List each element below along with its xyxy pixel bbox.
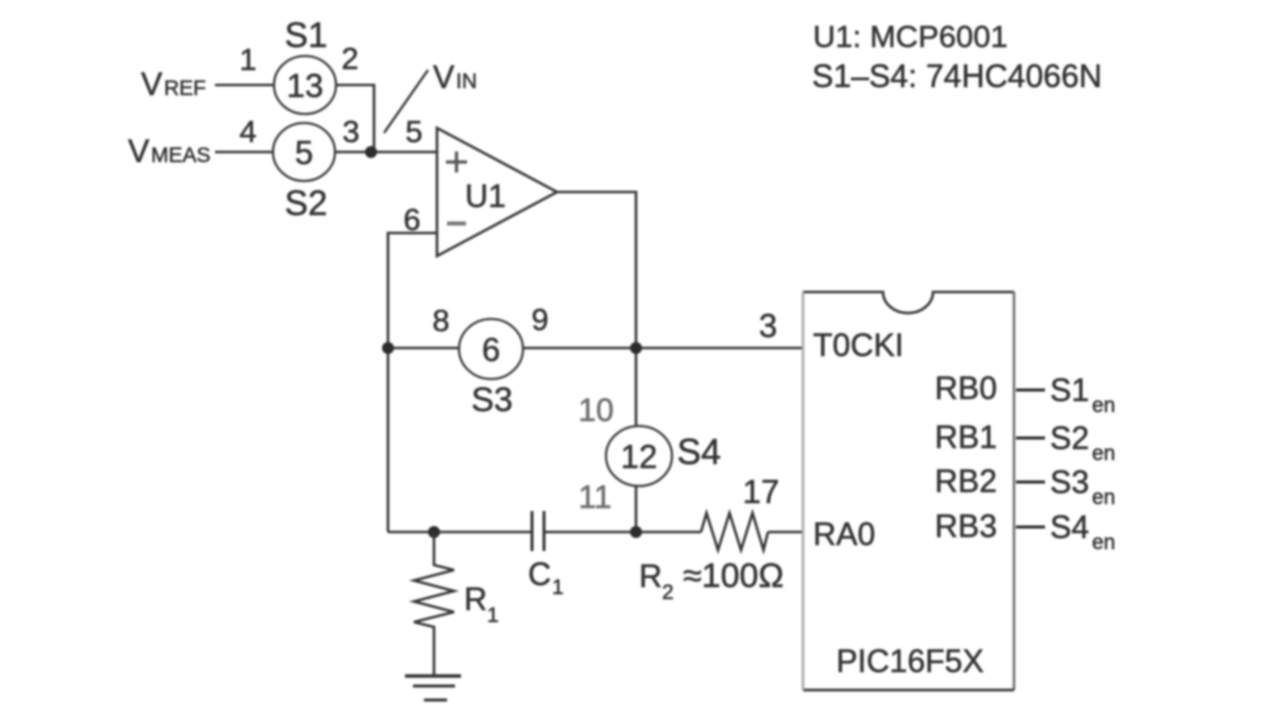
net label VIN (433, 59, 477, 95)
wire op-amp output right and down (557, 192, 636, 427)
svg-text:en: en (1092, 531, 1115, 554)
svg-text:13: 13 (287, 67, 324, 104)
svg-text:S2: S2 (285, 184, 328, 223)
svg-text:17: 17 (743, 473, 780, 510)
svg-text:REF: REF (164, 77, 206, 100)
svg-text:2: 2 (341, 41, 358, 76)
VIN pointer slash (384, 70, 428, 133)
junction bottom node above R1 (428, 526, 440, 538)
switch S4 circle (606, 426, 672, 486)
capacitor C1 left plate (531, 511, 534, 551)
wire feedback node to S3 pin8 (388, 347, 459, 350)
wire S2 pin3 to op-amp pin5 (335, 151, 437, 154)
svg-text:3: 3 (759, 307, 777, 344)
svg-text:10: 10 (578, 392, 614, 428)
RB0 stub wire (1016, 388, 1045, 391)
svg-text:PIC16F5X: PIC16F5X (836, 643, 984, 679)
svg-text:3: 3 (342, 114, 359, 149)
svg-text:RA0: RA0 (813, 516, 875, 552)
svg-text:RB2: RB2 (935, 463, 997, 499)
net label S2en (1050, 420, 1115, 465)
svg-text:1: 1 (487, 604, 499, 627)
svg-text:en: en (1092, 442, 1115, 465)
wire bottom rail left segment to C1 (388, 531, 532, 534)
svg-text:RB1: RB1 (935, 419, 997, 455)
RB3 stub wire (1016, 525, 1045, 528)
svg-text:S2: S2 (1050, 420, 1089, 456)
svg-text:9: 9 (531, 302, 548, 337)
switch S2 circle (273, 123, 335, 181)
svg-text:12: 12 (621, 438, 658, 475)
svg-text:5: 5 (405, 114, 422, 149)
wire VREF to S1 pin1 (215, 84, 274, 87)
svg-text:4: 4 (239, 114, 256, 149)
svg-text:IN: IN (456, 70, 477, 93)
svg-text:5: 5 (295, 134, 313, 171)
junction feedback node left (382, 342, 394, 354)
junction bottom node under S4 (630, 526, 642, 538)
svg-text:S4: S4 (677, 431, 721, 472)
net label S4en (1050, 509, 1115, 554)
svg-text:1: 1 (239, 42, 256, 77)
svg-text:RB0: RB0 (935, 370, 997, 406)
net label VMEAS (128, 133, 211, 169)
svg-text:RB3: RB3 (935, 508, 997, 544)
switch S1 circle (274, 56, 336, 114)
svg-text:T0CKI: T0CKI (813, 327, 904, 363)
svg-text:S1: S1 (285, 16, 328, 55)
wire op-amp pin6 feedback left and down (388, 233, 437, 532)
svg-text:S1: S1 (1050, 372, 1089, 408)
svg-text:en: en (1092, 486, 1115, 509)
svg-text:8: 8 (432, 303, 449, 338)
RB1 stub wire (1016, 436, 1045, 439)
svg-text:S3: S3 (1050, 464, 1089, 500)
wire C1 to R2 (544, 531, 701, 534)
svg-text:V: V (141, 66, 163, 102)
op-amp - input mark (447, 222, 466, 226)
svg-text:1: 1 (552, 576, 564, 599)
svg-text:S1–S4: 74HC4066N: S1–S4: 74HC4066N (812, 58, 1102, 94)
wire S4 bottom to bottom rail (635, 486, 638, 532)
svg-text:C: C (528, 556, 551, 592)
svg-text:S4: S4 (1050, 509, 1089, 545)
IC PIC16F5X body with notch (803, 292, 1014, 690)
svg-text:MEAS: MEAS (151, 144, 211, 167)
svg-text:≈100Ω: ≈100Ω (683, 557, 784, 595)
wire S1 pin2 down to node VIN (336, 85, 374, 152)
svg-text:6: 6 (482, 331, 500, 368)
svg-text:R: R (464, 581, 487, 617)
resistor R2 zigzag (701, 513, 768, 550)
op-amp + input mark (446, 152, 467, 173)
ground symbol (405, 676, 461, 700)
net label S1en (1050, 372, 1115, 417)
capacitor C1 right plate (543, 511, 546, 551)
resistor R1 zigzag (414, 532, 454, 676)
svg-text:en: en (1092, 394, 1115, 417)
svg-text:R: R (639, 558, 662, 594)
svg-text:V: V (433, 59, 455, 95)
junction node VIN (365, 146, 377, 158)
svg-text:V: V (128, 133, 150, 169)
svg-text:11: 11 (578, 479, 611, 515)
wire S3 pin9 to chip T0CKI (523, 347, 803, 350)
label R1 (464, 581, 499, 627)
RB2 stub wire (1016, 480, 1045, 483)
net label S3en (1050, 464, 1115, 509)
svg-text:2: 2 (662, 581, 674, 604)
svg-text:U1: MCP6001: U1: MCP6001 (813, 19, 1008, 54)
junction output node (630, 342, 642, 354)
label R2 approx 100 ohm (639, 557, 784, 604)
svg-text:U1: U1 (465, 178, 506, 214)
op-amp U1 triangle (437, 128, 557, 256)
label C1 (528, 556, 564, 599)
wire R2 to chip RA0 (768, 531, 803, 534)
net label VREF (141, 66, 206, 102)
switch S3 circle (459, 319, 523, 379)
svg-text:S3: S3 (471, 381, 513, 419)
wire VMEAS to S2 pin4 (215, 151, 273, 154)
